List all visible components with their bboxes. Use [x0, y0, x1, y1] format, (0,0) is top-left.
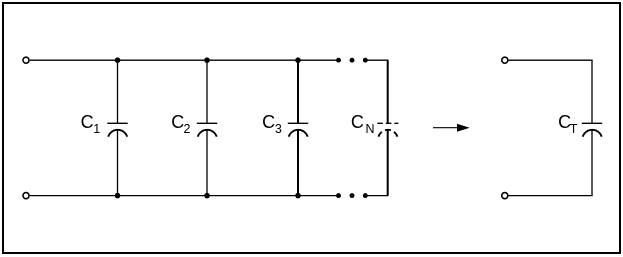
- terminal T4 (bottom-right open circle): [502, 193, 508, 199]
- svg-text:C: C: [171, 112, 184, 132]
- node junction bottom of C3: [295, 193, 301, 199]
- wire CT top lead: [591, 60, 593, 124]
- wire CN top lead: [387, 60, 389, 124]
- capacitor C2: [197, 60, 217, 195]
- ellipsis dot bottom b: [350, 193, 355, 198]
- wire right bottom rail: [509, 194, 592, 197]
- C1 curved plate: [108, 130, 127, 137]
- terminal T2 (bottom-left open circle): [23, 193, 29, 199]
- svg-text:C: C: [81, 112, 94, 132]
- C3 curved plate: [289, 130, 308, 137]
- node junction top of C2: [204, 57, 210, 63]
- terminal T1 (top-left open circle): [23, 57, 29, 63]
- C2 curved plate: [198, 130, 217, 137]
- node junction top of C3: [295, 57, 301, 63]
- wire bottom rail right segment to corner: [365, 194, 387, 197]
- node junction bottom of C1: [115, 193, 121, 199]
- capacitor C1: [107, 60, 127, 195]
- wire C1 bottom lead: [117, 130, 119, 196]
- capacitor C3: [288, 60, 308, 195]
- capacitor CN (dashed): [377, 60, 398, 195]
- svg-text:1: 1: [93, 122, 100, 136]
- wire C3 top lead: [297, 60, 299, 124]
- CN curved plate dashed: [378, 130, 397, 137]
- CN flat plate dashed: [377, 122, 398, 124]
- wire C3 bottom lead: [297, 130, 299, 196]
- wire C1 top lead: [117, 60, 119, 124]
- CT flat plate: [582, 122, 602, 124]
- ellipsis dot bottom c: [363, 193, 368, 198]
- svg-text:C: C: [351, 112, 364, 132]
- wire CT bottom lead: [591, 130, 593, 196]
- wire top rail left segment: [30, 59, 339, 61]
- wire top rail right segment to corner: [365, 59, 387, 62]
- capacitor CT: [582, 60, 602, 195]
- node junction bottom of C2: [204, 193, 210, 199]
- svg-text:N: N: [366, 122, 375, 136]
- CT curved plate: [583, 130, 602, 137]
- arrow (equivalence): [433, 124, 470, 132]
- ellipsis dot top a: [336, 58, 341, 63]
- ellipsis dot bottom a: [336, 193, 341, 198]
- C1 flat plate: [107, 122, 127, 124]
- ellipsis dot top c: [363, 58, 368, 63]
- ellipsis dot top b: [350, 58, 355, 63]
- node junction top of C1: [115, 57, 121, 63]
- svg-text:T: T: [570, 122, 578, 136]
- wire C2 bottom lead: [206, 130, 208, 196]
- svg-text:3: 3: [275, 122, 282, 136]
- C2 flat plate: [197, 122, 217, 124]
- svg-text:C: C: [262, 112, 275, 132]
- terminal T3 (top-right open circle): [502, 57, 508, 63]
- wire right top rail: [509, 59, 592, 62]
- wire CN bottom lead: [387, 130, 389, 196]
- C3 flat plate: [288, 122, 308, 124]
- wire bottom rail left segment: [30, 195, 339, 197]
- svg-text:2: 2: [184, 122, 191, 136]
- wire C2 top lead: [206, 60, 208, 124]
